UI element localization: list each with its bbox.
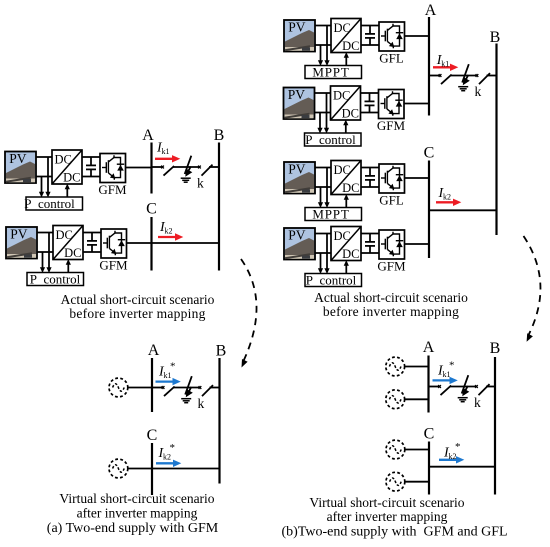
svg-text:C: C bbox=[147, 427, 158, 444]
svg-text:Actual short-circuit scenario: Actual short-circuit scenario bbox=[61, 292, 215, 307]
svg-text:GFL: GFL bbox=[379, 193, 404, 208]
svg-text:*: * bbox=[449, 359, 455, 371]
svg-text:B: B bbox=[490, 29, 501, 46]
svg-text:P control: P control bbox=[24, 196, 75, 211]
svg-text:P control: P control bbox=[306, 273, 357, 288]
svg-text:MPPT: MPPT bbox=[312, 65, 349, 80]
svg-text:A: A bbox=[148, 342, 160, 359]
svg-text:(b)Two-end supply with GFM an: (b)Two-end supply with GFM and GFL bbox=[281, 525, 507, 540]
svg-text:*: * bbox=[455, 441, 461, 453]
svg-text:GFM: GFM bbox=[98, 182, 127, 197]
svg-text:k2: k2 bbox=[449, 452, 457, 461]
svg-text:C: C bbox=[424, 426, 435, 443]
svg-text:GFM: GFM bbox=[377, 118, 406, 133]
svg-text:k2: k2 bbox=[443, 193, 451, 202]
svg-text:k2: k2 bbox=[163, 453, 171, 462]
svg-text:A: A bbox=[425, 2, 437, 19]
svg-text:k1: k1 bbox=[443, 370, 451, 379]
svg-text:C: C bbox=[146, 201, 157, 218]
svg-text:k1: k1 bbox=[164, 371, 172, 380]
svg-text:C: C bbox=[424, 145, 435, 162]
svg-text:Actual short-circuit scenario: Actual short-circuit scenario bbox=[314, 290, 468, 305]
svg-text:after inverter mapping: after inverter mapping bbox=[327, 509, 448, 524]
svg-text:A: A bbox=[142, 127, 154, 144]
svg-text:P control: P control bbox=[305, 132, 356, 147]
svg-text:*: * bbox=[170, 442, 176, 454]
svg-text:A: A bbox=[423, 339, 435, 356]
svg-text:GFM: GFM bbox=[377, 259, 406, 274]
svg-text:Virtual short-circuit scenario: Virtual short-circuit scenario bbox=[309, 495, 464, 510]
svg-text:(a) Two-end supply with GFM: (a) Two-end supply with GFM bbox=[47, 521, 219, 536]
svg-text:MPPT: MPPT bbox=[312, 207, 349, 222]
svg-text:B: B bbox=[216, 343, 227, 360]
svg-text:k1: k1 bbox=[441, 60, 449, 69]
svg-text:after inverter mapping: after inverter mapping bbox=[77, 506, 198, 521]
svg-text:P control: P control bbox=[30, 272, 81, 287]
svg-text:GFL: GFL bbox=[379, 51, 404, 66]
svg-text:k2: k2 bbox=[165, 227, 173, 236]
svg-text:before inverter mapping: before inverter mapping bbox=[323, 304, 459, 319]
svg-text:*: * bbox=[170, 360, 176, 372]
svg-text:before inverter mapping: before inverter mapping bbox=[69, 306, 205, 321]
svg-text:B: B bbox=[214, 127, 225, 144]
svg-text:Virtual short-circuit scenario: Virtual short-circuit scenario bbox=[59, 491, 214, 506]
svg-text:B: B bbox=[490, 340, 501, 357]
svg-text:GFM: GFM bbox=[99, 258, 128, 273]
svg-text:k1: k1 bbox=[162, 147, 170, 156]
